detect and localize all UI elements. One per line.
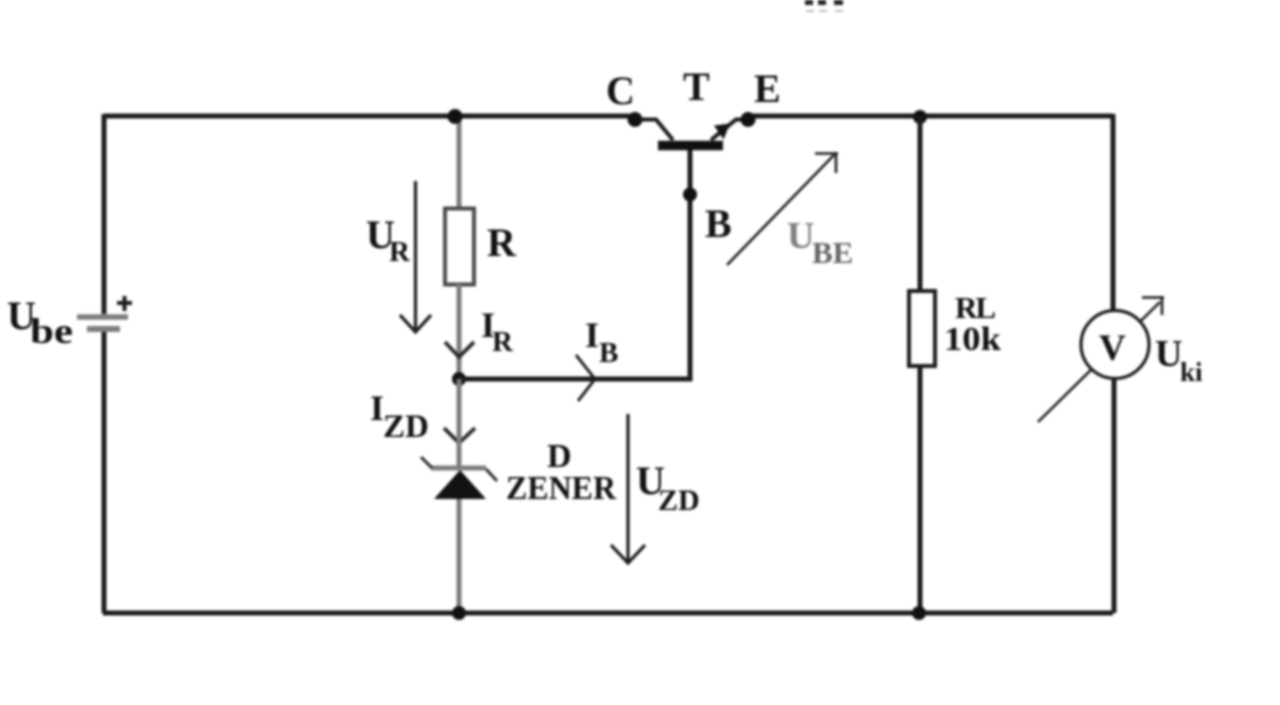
label UR [366,212,411,268]
svg-text:I: I [370,388,384,428]
svg-text:I: I [585,315,599,355]
wire right side lower (voltmeter to bottom rail) [1112,378,1117,613]
battery plus sign [117,296,132,311]
transistor base wire down with node B [683,188,697,202]
node junction R top (on top rail) [448,109,463,124]
wire bottom rail [103,611,1113,616]
svg-text:ZD: ZD [383,409,429,445]
transistor T base bar [658,141,723,151]
svg-text:B: B [705,201,732,246]
wire base horizontal (node to base corner) [459,150,690,379]
cropped text remnants at top edge [805,0,843,12]
svg-text:V: V [1099,328,1126,369]
node junction R / zener / base wire [452,372,466,386]
zener diode D cathode bar with hooks [421,457,497,481]
wire resistor R branch upper lead (gray) [457,116,462,212]
svg-text:ZD: ZD [658,484,700,517]
label IB [585,315,618,369]
zener diode D anode triangle [434,470,486,499]
svg-text:B: B [599,337,618,369]
wire RL upper lead [918,116,923,293]
label UBE [787,215,853,270]
svg-text:R: R [487,220,517,265]
node junction zener bottom (on bottom rail) [452,606,466,620]
wire top rail left segment [104,114,633,119]
resistor RL body [909,291,935,366]
transistor T emitter lead with arrow [711,120,742,141]
battery B1 (Ube source) plates [77,317,128,329]
node junction RL bottom (on bottom rail) [912,606,926,620]
wire right side upper (to voltmeter) [1111,114,1116,311]
wire left side (battery branch) lower [102,331,107,613]
svg-text:C: C [606,68,635,113]
svg-text:U: U [1155,333,1182,375]
svg-text:E: E [754,66,781,111]
wire top rail right segment [748,114,1113,119]
svg-text:U: U [787,215,814,257]
resistor R body [445,209,474,285]
arrowhead IB on base wire [576,355,595,401]
node junction RL top (on top rail) [913,110,927,124]
arrowhead IZD on zener wire [444,428,475,443]
svg-text:R: R [492,326,514,358]
arrowhead IR on wire [445,342,474,357]
wire RL lower lead [918,366,923,613]
svg-text:be: be [30,311,73,351]
svg-text:T: T [683,64,710,109]
label UZD [636,458,700,517]
voltmeter V circle [1081,311,1149,379]
transistor T emitter node dot E [741,112,756,127]
svg-text:R: R [389,236,411,268]
svg-text:RL: RL [955,290,995,325]
label IR [481,305,514,358]
wire zener lower lead (gray) [457,499,462,613]
label Uki [1155,333,1203,387]
svg-text:BE: BE [812,235,853,270]
arrow UR (voltage across R) [400,181,431,332]
arrow Uki diagonal through voltmeter [1038,296,1164,422]
wire left side (battery branch) upper [102,114,107,314]
transistor T collector lead + dot [628,112,674,140]
arrow UZD (voltage across zener) [611,414,645,563]
wire resistor R lower lead (gray) [457,284,462,379]
label IZD [370,388,429,445]
wire zener upper lead (gray) [457,379,462,466]
svg-text:ki: ki [1180,357,1203,387]
svg-text:ZENER: ZENER [506,470,616,507]
svg-text:10k: 10k [944,321,1001,358]
arrow UBE diagonal [727,152,838,265]
